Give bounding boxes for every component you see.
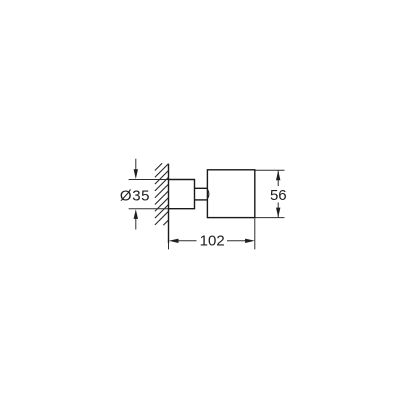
svg-text:Ø35: Ø35 (120, 188, 150, 205)
svg-text:56: 56 (270, 187, 287, 204)
svg-text:102: 102 (200, 233, 225, 250)
